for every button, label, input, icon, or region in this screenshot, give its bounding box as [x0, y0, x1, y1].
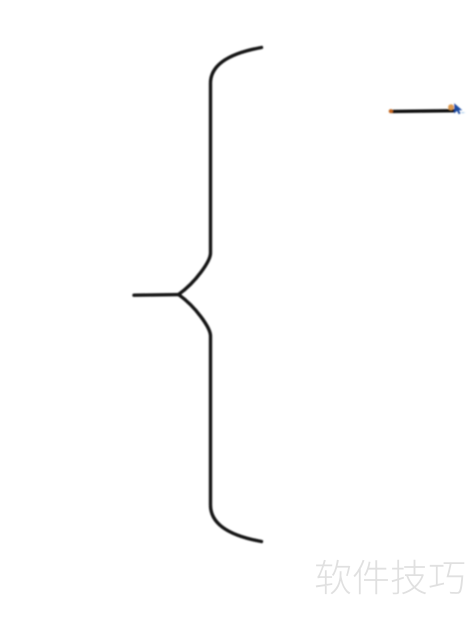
horizontal tail line at brace cusp — [134, 293, 180, 297]
orange endpoint handle left — [389, 109, 393, 113]
watermark char 巧 — [430, 562, 465, 594]
orange endpoint handle right — [448, 104, 454, 110]
blue mouse cursor shadow tail — [461, 112, 466, 113]
short drawn line top right — [392, 109, 456, 113]
watermark char 件 — [354, 560, 388, 594]
watermark char 技 — [392, 560, 427, 595]
watermark char 软 — [316, 560, 351, 595]
blue mouse cursor — [454, 103, 462, 114]
watermark text 软件技巧 — [316, 560, 465, 595]
left curly brace shape — [179, 48, 262, 542]
